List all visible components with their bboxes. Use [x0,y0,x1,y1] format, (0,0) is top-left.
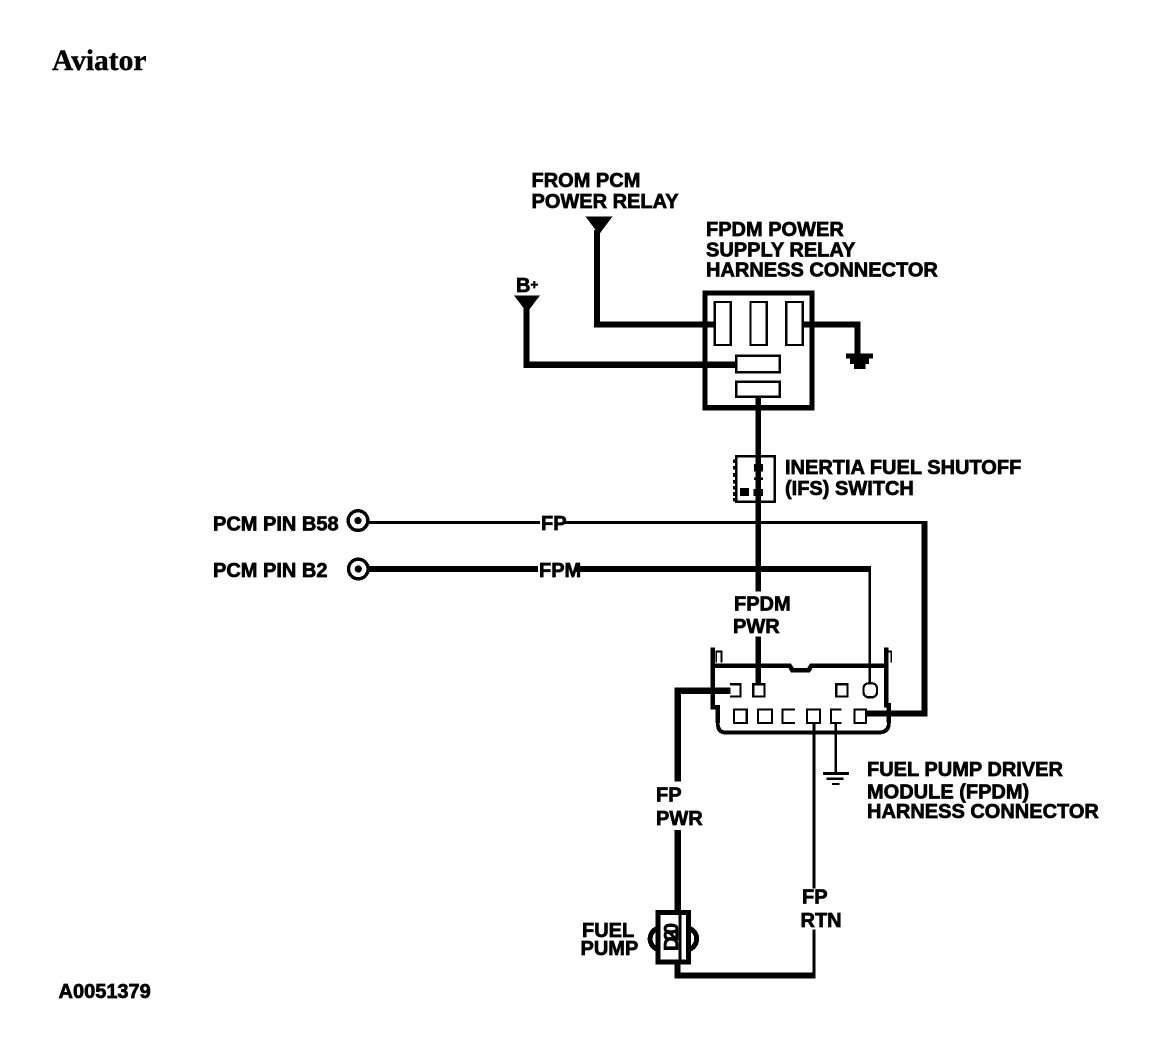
wire pin B5 to earth ground [835,723,837,772]
wire FP: PCM pin B58 to FPDM pin B6 [369,521,924,524]
wire FP PWR: pin A1 to fuel pump [678,688,731,911]
svg-text:PCM PIN B58: PCM PIN B58 [213,514,339,536]
wire FPM vertical thin drop to pin A4 [869,566,871,684]
chassis ground (relay) [846,353,873,369]
svg-text:PCM PIN B2: PCM PIN B2 [213,560,327,582]
relay pin 1 [715,302,731,345]
svg-text:FROM PCM: FROM PCM [532,170,641,192]
inertia fuel shutoff (IFS) switch [733,456,774,501]
svg-text:RTN: RTN [801,910,842,932]
svg-text:A0051379: A0051379 [59,981,151,1003]
svg-text:FPDM POWER: FPDM POWER [706,219,844,241]
relay contact rect1 [736,356,779,372]
svg-text:FPDM: FPDM [734,594,791,616]
FPDM pin B2 [758,709,772,723]
svg-text:FPM: FPM [539,560,581,582]
wire FP RTN: pin B4 down to fuel pump return [813,723,816,978]
svg-text:HARNESS CONNECTOR: HARNESS CONNECTOR [706,260,938,282]
svg-text:SUPPLY RELAY: SUPPLY RELAY [706,240,856,262]
FPDM pin A3 [836,684,847,696]
FPDM pin B3 [782,709,794,723]
earth ground (FPDM) [823,774,849,784]
wire FPDM PWR label to pin A2 [755,637,761,685]
svg-text:FP: FP [541,513,567,535]
relay pin 3 [786,302,803,345]
relay contact rect2 [736,382,779,397]
wire relay rect2 down to FPDM PWR label (through IFS switch) [755,397,761,592]
FPDM pin A4 [864,683,878,697]
PCM pin B2 terminal circle [349,559,369,579]
svg-text:PUMP: PUMP [581,938,639,960]
FPDM pin B5 [831,709,842,723]
svg-text:POWER RELAY: POWER RELAY [532,191,680,213]
relay pin 2 [750,302,766,345]
relay connector box U1 [705,293,812,408]
svg-text:PWR: PWR [733,616,780,638]
wire from PCM power relay arrow to relay box pin 1 [594,230,715,324]
svg-text:Aviator: Aviator [52,45,146,77]
FPDM pin B6 [854,709,866,723]
svg-text:D20: D20 [661,923,683,951]
svg-text:FP: FP [656,785,682,807]
FPDM pin B1 [734,709,747,723]
battery feed arrow (B+) [514,296,540,313]
wire fuel pump bottom to FP RTN [675,962,816,976]
svg-text:FUEL PUMP DRIVER: FUEL PUMP DRIVER [867,759,1064,781]
wire from B+ arrow to relay contact rect1 [523,308,737,365]
wire FPM: PCM pin B2 to FPDM pin A4 [369,566,870,572]
svg-text:FP: FP [802,887,828,909]
fuel pump motor M1 [650,913,697,963]
FPDM pin A1 [730,684,740,696]
svg-text:(IFS) SWITCH: (IFS) SWITCH [785,478,914,500]
FPDM pin A2 [753,684,764,696]
power feed arrow (FROM PCM POWER RELAY) [586,217,613,235]
wire FP vertical drop to FPDM pin B6 [865,521,928,713]
FPDM harness connector J1 outline [711,648,892,733]
FPDM pin B4 [807,709,820,723]
svg-text:HARNESS CONNECTOR: HARNESS CONNECTOR [867,801,1099,823]
PCM pin B58 terminal circle [348,511,368,531]
svg-text:INERTIA FUEL SHUTOFF: INERTIA FUEL SHUTOFF [785,457,1021,479]
svg-text:PWR: PWR [656,808,703,830]
wire relay pin3 to chassis ground [803,321,858,354]
